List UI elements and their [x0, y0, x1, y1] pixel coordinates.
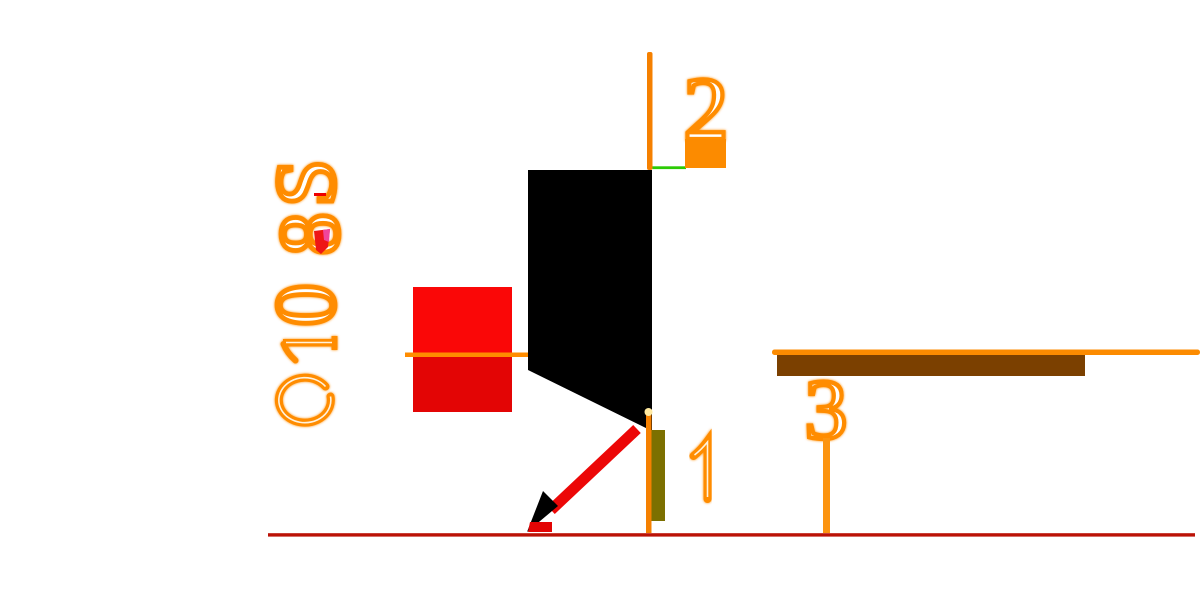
red dash mark in text: [314, 193, 326, 196]
pin 3 stub wire: [823, 438, 830, 533]
svg-text:8: 8: [261, 213, 357, 256]
baseline (bottom rail): [268, 533, 1195, 536]
gate lead brown band: [777, 355, 1085, 376]
green link at anode node: [653, 166, 687, 169]
pin 1 label: [694, 441, 708, 499]
pin 1 lead glow tip: [645, 408, 653, 416]
red wedge mark in text: [314, 229, 330, 254]
gate arrow line (red): [551, 429, 637, 510]
red block lower: [413, 356, 512, 412]
cathode bar (olive): [652, 430, 666, 521]
pin 1 lead (cathode wire): [646, 411, 652, 533]
svg-text:0: 0: [257, 284, 353, 327]
SCR body (black triangle): [528, 170, 652, 431]
red wedge under arrow head: [528, 522, 552, 532]
orange node line at y355: [405, 353, 528, 358]
gate arrow head (black): [527, 491, 558, 532]
red block upper: [413, 287, 512, 356]
svg-text:S: S: [257, 159, 353, 207]
part number text C108S (vertical, reads bottom-up): [257, 159, 357, 423]
pin 2 lead (anode wire): [647, 52, 653, 170]
gate lead orange wire: [772, 350, 1200, 356]
pin 2 pad: [685, 139, 726, 168]
